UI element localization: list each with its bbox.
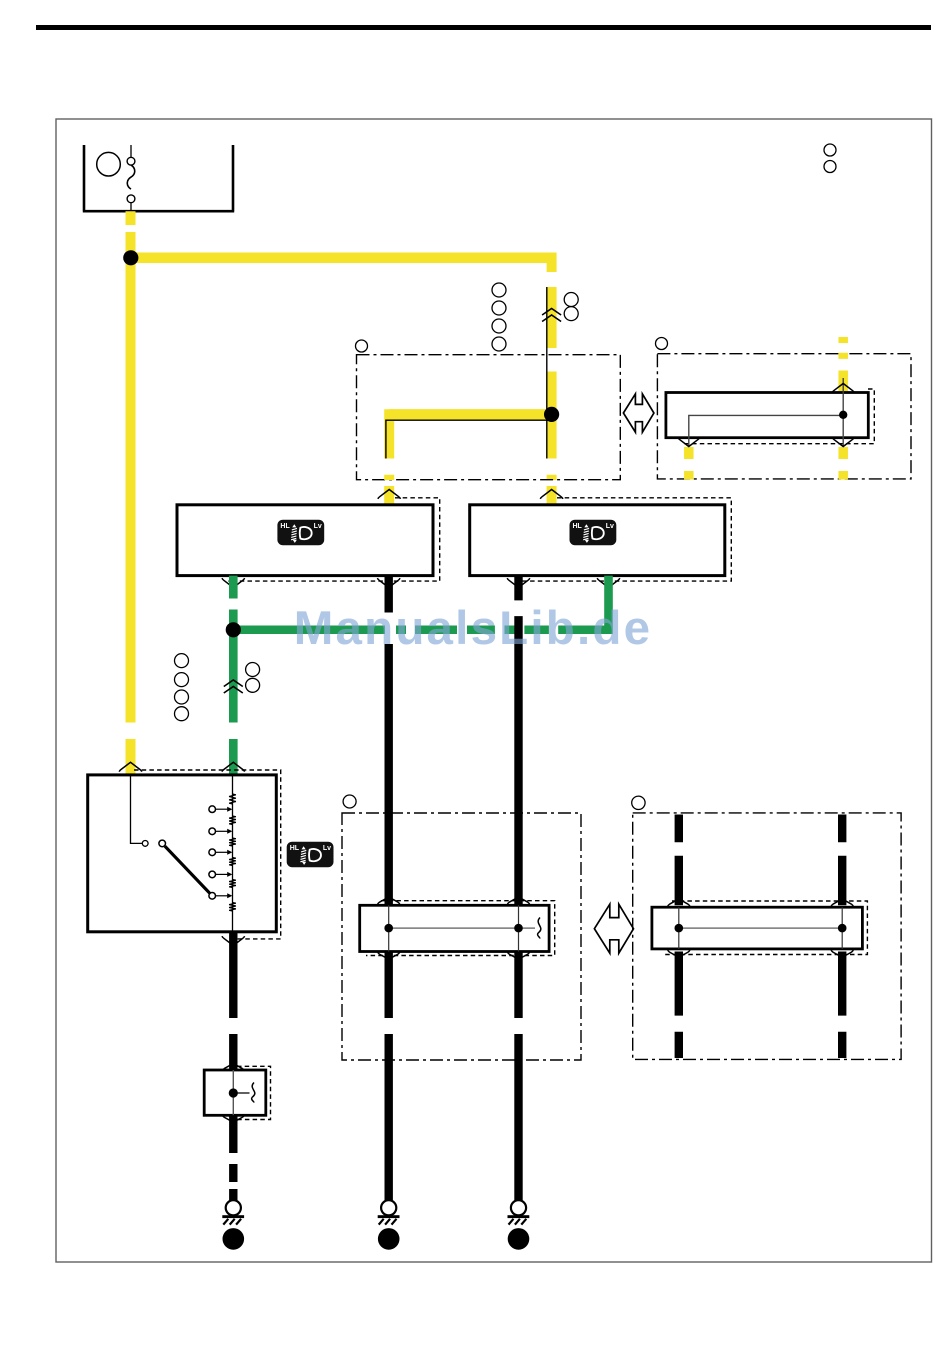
inline connector body: [204, 1070, 266, 1115]
internal trace in alternate block: [689, 378, 843, 447]
junction node at battery feed: [123, 250, 138, 265]
yellow stubs in alternate block: [838, 337, 848, 393]
diagram outer frame: [56, 119, 932, 1262]
right headlamp (RH) headlamp icon: [570, 520, 617, 546]
floor harness dash-dot outline (right, alternate): [633, 813, 901, 1060]
ground G (left): [222, 1200, 244, 1249]
wire: green stub from RH headlamp: [604, 576, 613, 634]
fusible link F: [127, 145, 135, 211]
chevrons on alternate block stubs: [832, 384, 855, 393]
lighting switch dashed outline: [134, 770, 281, 939]
chevrons into switch: [119, 762, 142, 771]
left headlamp (LH) connector body: [177, 505, 433, 576]
harness continuation mark on green wire: [224, 680, 243, 693]
inline connector internals: [232, 1070, 234, 1115]
black stub wires in alternate harness box: [675, 815, 683, 1059]
connector pin circles column (green): [175, 654, 189, 721]
connector body rect: [666, 393, 868, 438]
wire: yellow battery feed vertical (left): [126, 211, 136, 775]
joint connector shadow dashed rect (right): [664, 901, 867, 955]
wire: black below switch: [229, 932, 237, 1070]
connector shadow dashed rect: [683, 389, 874, 444]
left headlamp (LH) headlamp icon: [277, 520, 324, 546]
wire: green from LH headlamp down to dimmer switch: [229, 576, 238, 775]
joint connector shadow dashed rect (left): [366, 901, 555, 956]
left headlamp (LH) component dashed outline: [228, 498, 439, 581]
connector chevrons into headlamps: [378, 490, 401, 499]
switch taps with arrows: [209, 806, 233, 813]
top horizontal rule: [36, 25, 931, 30]
joint connector body (right): [652, 907, 863, 949]
wire: yellow vertical drop to junction connector: [547, 253, 557, 505]
junction node on green bus: [226, 622, 241, 637]
right headlamp (RH) component dashed outline: [514, 498, 732, 581]
svg-text:ManualsLib.de: ManualsLib.de: [294, 602, 653, 655]
wire: black from LH headlamp to ground: [385, 576, 393, 1201]
battery and fusible link box: [83, 145, 234, 211]
chevrons at headlamp bottom pins: [222, 578, 245, 587]
switch blade: [165, 846, 210, 893]
pin circle at alternate block corner: [656, 338, 668, 350]
pin circle at junction block corner: [356, 340, 368, 352]
yellow branch inside junction block: [389, 409, 551, 420]
joint connector body (left): [360, 905, 549, 951]
resistors R1-R6: [229, 794, 236, 804]
lighting switch body: [88, 775, 277, 932]
ground G (right): [508, 1200, 530, 1249]
wire: black below inline connector: [229, 1115, 237, 1200]
right headlamp (RH) connector body: [470, 505, 725, 576]
floor harness dash-dot outline (left): [342, 813, 581, 1060]
equivalence double arrow (top): [623, 394, 654, 432]
resistor ladder line: [232, 776, 234, 931]
harness continuation mark on yellow wire: [542, 309, 561, 322]
chevrons at joint connector (left): [378, 897, 400, 904]
ground G (middle): [378, 1200, 400, 1249]
switch internal feed trace: [131, 776, 143, 843]
connector pin circle pair right of yellow wire: [564, 293, 578, 321]
thin wire trace inside junction block: [386, 287, 552, 459]
chevrons at joint connector (right): [668, 899, 690, 906]
joint connector internals (left): [389, 905, 519, 951]
wire: black from RH headlamp to ground: [514, 576, 522, 1201]
headlamp leveling icon beside switch: [287, 842, 334, 868]
connector pin circles column (yellow feed): [492, 283, 506, 351]
circles top right corner: [824, 144, 836, 173]
connector pin circle pair right of green wire: [246, 663, 260, 693]
wire: green horizontal bus: [233, 626, 608, 635]
inline connector shadow dashed (left wire): [237, 1066, 271, 1119]
wire: yellow feed horizontal to right: [131, 253, 552, 264]
alternate junction block dash-dot outline: [657, 354, 911, 479]
junction block J/B dash-dot outline: [357, 355, 621, 480]
joint connector internals (right): [679, 907, 842, 949]
junction node inside block: [544, 407, 559, 422]
equivalence double arrow (bottom): [594, 904, 633, 953]
